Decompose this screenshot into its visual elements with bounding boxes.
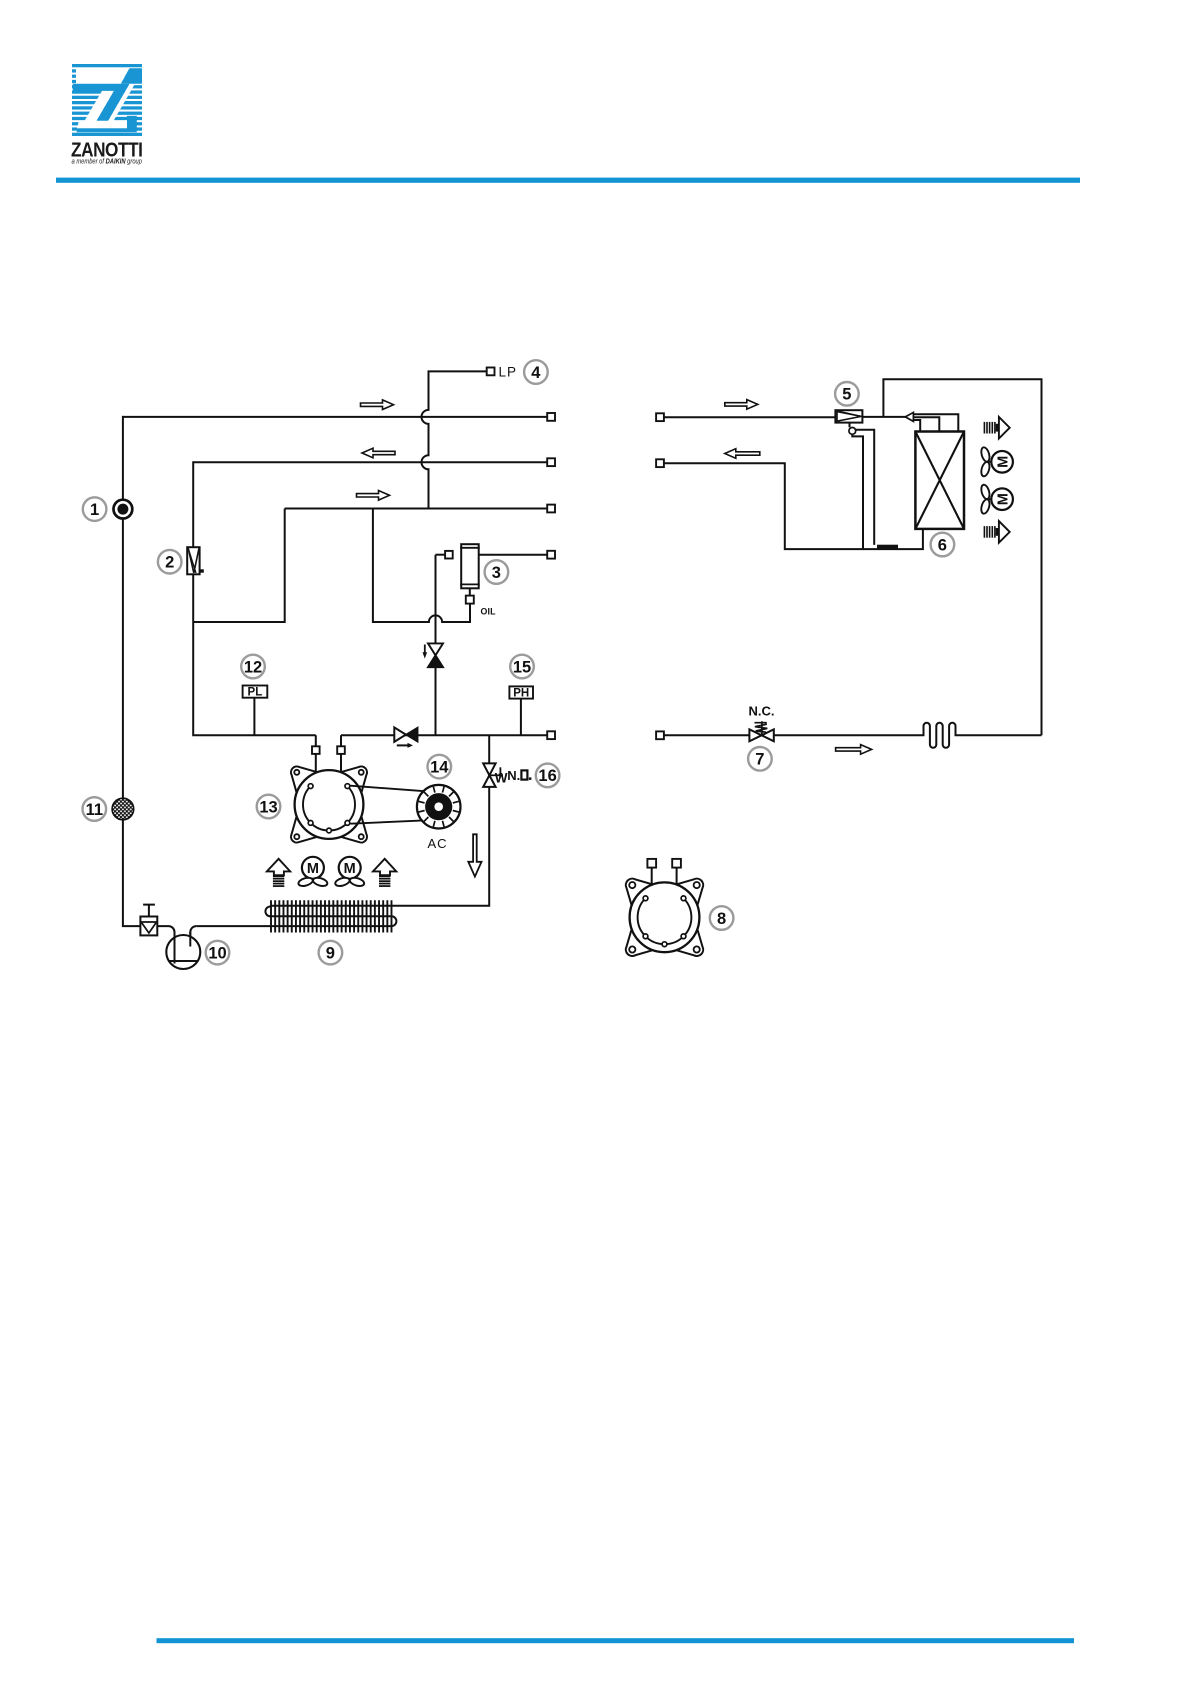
wire left main vertical [123,416,140,926]
compressor 13 port squares [312,746,320,754]
svg-text:9: 9 [326,944,335,962]
evap fan motor M bottom [991,488,1013,510]
wire vertical C with cross link [193,509,285,623]
label circle 15 [510,655,534,679]
condenser coil 9 fins [271,900,391,932]
wire TXV bottom stub [849,423,851,428]
wire discharge line [341,734,547,736]
NO valve actuator line and down arrow [489,774,503,776]
svg-text:N.: N. [507,768,520,783]
Zanotti logo striped square [72,64,142,136]
airflow striped arrow bottom [984,526,986,538]
compressor 8 bolts [643,896,648,901]
label circle 10 [206,941,230,965]
label circle 8 [710,906,734,930]
svg-text:OIL: OIL [481,607,497,617]
condenser fan motor M left [302,857,324,879]
svg-text:10: 10 [208,944,226,962]
wire evap header L3 [913,420,920,431]
svg-text:M: M [995,456,1011,468]
evap fan motor M top [991,451,1013,473]
label circle 4 [524,360,548,384]
svg-text:8: 8 [717,910,726,928]
wire evap header L1 [913,414,958,431]
pressure switch PL 12 [243,686,268,698]
svg-text:M: M [344,861,356,877]
svg-text:2: 2 [165,554,174,572]
svg-text:12: 12 [244,658,262,676]
wire vertical B (filter drier line) [193,461,316,735]
flow arrow line3 [357,491,390,501]
svg-text:4: 4 [531,364,541,382]
wire line3 [285,508,548,510]
oil sep left port square [445,551,453,559]
label circle 9 [319,941,343,965]
svg-text:5: 5 [842,386,851,404]
svg-text:7: 7 [755,751,764,769]
svg-text:PH: PH [513,688,529,700]
TXV sensing bulb [877,545,898,549]
svg-text:11: 11 [86,801,103,819]
svg-text:a member of DAIKIN group: a member of DAIKIN group [72,157,143,166]
condenser fan motor M right [339,857,361,879]
check valve flow arrow [397,744,408,746]
solenoid valve N.O. 16 [483,763,495,775]
evaporator 6 [915,432,964,529]
svg-text:LP: LP [499,365,518,380]
wire evap header L2 [913,417,939,431]
oil drain square [466,596,474,604]
wire TXV equalizer line [852,434,863,549]
logo blue Z [73,68,142,132]
TXV capillary circle [849,428,856,435]
wire discharge stub from compressor [340,735,342,771]
hollow down arrow [468,834,481,876]
compressor 13 bolts [308,784,313,789]
label circle 5 [835,382,859,406]
label circle 6 [931,533,955,557]
svg-text:1: 1 [90,501,99,519]
bottom blue rule [157,1638,1075,1643]
svg-text:M: M [995,493,1011,505]
airflow striped arrow top [984,422,986,434]
compressor 8 mounting ears [626,879,654,907]
wire receiver outlet [190,926,196,946]
airflow up arrow left [267,859,290,875]
filter drier 2 [187,547,199,574]
wire condenser left U-bend [265,907,391,917]
svg-text:16: 16 [538,767,556,785]
flow arrow defrost [836,745,872,755]
motor pulley AC [417,785,461,829]
wire evap outlet to suction [664,463,923,549]
wire oil separator right to terminal [479,554,548,556]
logo white Z [76,68,135,128]
wire receiver inlet dip tube [157,926,174,963]
svg-text:AC: AC [427,836,447,851]
LP terminal square [487,368,495,376]
svg-text:6: 6 [938,536,947,554]
solenoid valve N.C. 7 [749,729,761,741]
check valve 14 [394,727,406,741]
compressor 13 mounting ears [291,766,318,793]
oil separator 3 [461,544,479,588]
wire liquid line to TXV [664,416,836,418]
flow arrow line2 [362,448,395,458]
label circle 12 [241,655,265,679]
TXV 5 [835,410,862,422]
top blue rule [56,178,1080,183]
wire defrost line with heater [664,723,1042,748]
strainer 11 [112,798,134,820]
compressor 13 body [295,770,364,839]
small down arrow at valve [424,645,426,653]
terminal squares left diagram [547,413,555,421]
receiver 10 [166,935,200,969]
flow arrow right liquid [725,400,758,410]
wire PH drop [520,699,522,736]
sight glass 1 [114,500,133,519]
label circle 2 [158,550,182,574]
compressor 8 pipes [652,868,677,884]
wire line2 [193,461,547,463]
wire oil separator left port [436,554,446,556]
wire equalizer top vertical [883,379,1041,735]
label circle 11 [83,797,107,821]
wire condenser right U-bend [196,916,396,926]
wire PL drop [253,698,255,736]
NC valve spring [755,721,768,735]
flow arrow right suction [725,449,760,459]
wire oil separator inlet [435,555,437,736]
svg-text:PL: PL [248,687,263,699]
wire hot-gas branch to NO valve and condenser top [270,735,489,906]
shutoff valve at receiver [140,917,157,936]
svg-text:N.C.: N.C. [749,704,775,719]
compressor 8 body [630,882,700,952]
terminal squares right diagram [656,413,664,421]
airflow up arrow right [373,859,396,875]
svg-text:M: M [307,861,319,877]
wire TXV bulb capillary [855,430,874,545]
svg-text:15: 15 [513,658,531,676]
flow arrow line1 [361,400,394,410]
wire oil drain stub [469,588,471,595]
wire line1 suction top [123,416,547,418]
label circle 7 [748,747,772,771]
label circle 1 [83,497,107,521]
label circle 14 [428,755,452,779]
belt drive lines [351,786,425,824]
label circle 16 [536,764,560,788]
svg-text:14: 14 [430,758,449,776]
label circle 3 [485,560,509,584]
wire suction stub into compressor [315,735,317,771]
wire vertical D to oil return, hop over TXV feed [373,509,470,623]
suction left arrowhead at evap [905,412,913,421]
label circle 13 [257,795,281,819]
svg-text:3: 3 [492,564,501,582]
svg-text:13: 13 [259,798,277,816]
wire TXV outlet to evaporator [862,416,905,418]
wire LP gauge line with hops [422,371,487,508]
hand expansion valve (oil return) [428,643,443,655]
pressure switch PH 15 [509,686,533,698]
